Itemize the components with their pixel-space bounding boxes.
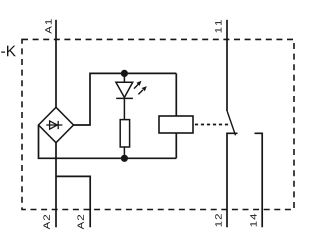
wire bridge right vertex to DC plus rail — [74, 73, 177, 125]
wire 11 — [226, 20, 228, 111]
wire bridge left vertex to DC minus rail — [39, 125, 177, 158]
contact 14 NO terminal — [255, 133, 263, 227]
relay enclosure -K dashed outline — [22, 39, 294, 209]
junction dot bottom rail — [121, 155, 128, 162]
mechanical link dashed coil to contact — [195, 124, 229, 126]
terminal label 11 — [215, 20, 221, 32]
wire A1 — [55, 20, 57, 108]
bridge rectifier V1 diamond — [39, 107, 74, 142]
junction dot top rail — [121, 70, 128, 77]
terminal label A2 left — [43, 215, 49, 230]
relay coil K1 — [159, 73, 193, 158]
terminal label 14 — [250, 214, 256, 227]
wire bridge bottom to A2 — [55, 143, 57, 228]
terminal label 12 — [215, 214, 221, 226]
LED D1 — [116, 73, 133, 119]
resistor R1 — [120, 120, 129, 159]
terminal label A1 — [45, 19, 51, 34]
changeover contact blade — [227, 111, 235, 135]
contact 12 NC terminal — [227, 133, 238, 227]
diode symbol inside bridge — [46, 121, 62, 129]
LED emission arrows — [134, 81, 147, 95]
terminal label A2 right — [77, 215, 83, 230]
label -K — [1, 46, 16, 57]
wire A2 jumper — [56, 176, 90, 227]
